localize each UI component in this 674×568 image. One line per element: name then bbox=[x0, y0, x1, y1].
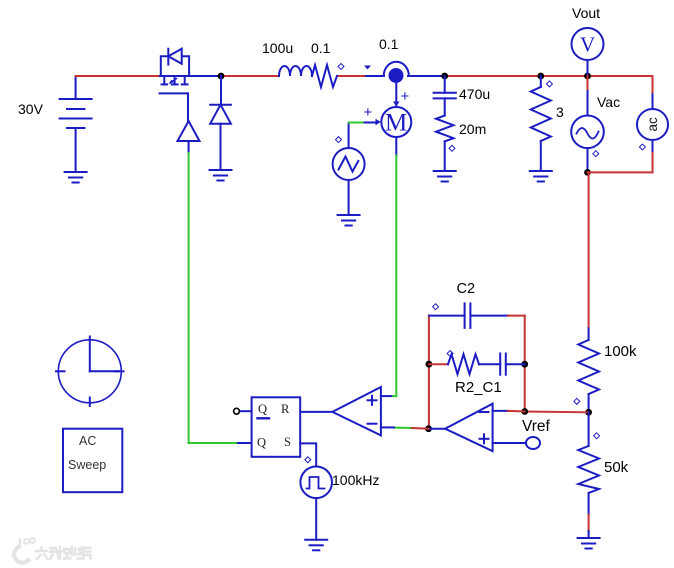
flip-flop U3 (SR latch) bbox=[252, 397, 301, 457]
wire (gating signal, green vertical) bbox=[188, 153, 190, 443]
svg-text:Q: Q bbox=[257, 436, 266, 450]
wire (driver input stub, blue) bbox=[188, 141, 190, 153]
comparator U1 bbox=[332, 387, 381, 435]
marker diamond (triangle source top) bbox=[336, 137, 342, 143]
wire (node E down to divider, red vertical) bbox=[588, 172, 590, 328]
node I (U2 minus node) bbox=[521, 408, 528, 415]
svg-text:+: + bbox=[364, 104, 373, 121]
node G bbox=[521, 361, 528, 368]
wire (triangle source to multiplier, green) bbox=[349, 122, 365, 124]
voltmeter VM1 bbox=[572, 28, 604, 60]
svg-text:S: S bbox=[284, 435, 291, 449]
svg-text:100u: 100u bbox=[262, 40, 293, 56]
multiplier U4 bbox=[381, 107, 411, 137]
wire (battery positive lead, blue) bbox=[75, 76, 77, 99]
AC sweep block bbox=[63, 429, 122, 493]
wire (U2 minus input stub blue then red) bbox=[493, 410, 508, 412]
label - (U2 inverting) bbox=[480, 411, 489, 413]
battery V1 30V bbox=[60, 99, 92, 172]
wire (Qbar output stub) bbox=[241, 410, 252, 412]
wire (flip-flop Q pin stub, blue) bbox=[238, 442, 252, 444]
ground (load R4) bbox=[530, 171, 552, 182]
diode D1 (freewheeling) bbox=[210, 105, 231, 124]
resistor R3 20m (ESR) bbox=[436, 116, 454, 142]
marker diamond (R4 top) bbox=[546, 81, 552, 87]
capacitor C2 bbox=[429, 303, 508, 328]
marker arrow (sensor direction) bbox=[364, 66, 371, 70]
node C bbox=[537, 73, 544, 80]
wire (R3 to ground) bbox=[444, 141, 446, 171]
wire (red into sensor, blue lead) bbox=[366, 75, 384, 77]
svg-text:R2_C1: R2_C1 bbox=[455, 379, 502, 396]
wire (U1 output to flip-flop R) bbox=[300, 411, 332, 413]
wire (feedback node to op-amp minus, red) bbox=[525, 411, 589, 414]
wire (MOSFET channel to node A, blue) bbox=[160, 75, 221, 77]
transistor Q1 body arrow bbox=[169, 79, 177, 84]
ground (battery) bbox=[65, 172, 87, 183]
wire (C2 right lead, red) bbox=[508, 315, 525, 317]
svg-text:20m: 20m bbox=[459, 121, 486, 137]
ground (diode D1) bbox=[210, 170, 232, 181]
svg-text:Vref: Vref bbox=[522, 418, 551, 435]
wire (node D down to Vac source, red then blue) bbox=[587, 76, 589, 91]
node B bbox=[441, 73, 448, 80]
transistor Q1 (MOSFET with body diode) bbox=[160, 49, 190, 94]
wire (right corner down to ac probe, red then blue) bbox=[652, 76, 654, 94]
svg-text:Q: Q bbox=[258, 402, 267, 416]
wire (triangle source top lead, blue) bbox=[348, 123, 350, 149]
svg-text:0.1: 0.1 bbox=[379, 36, 399, 52]
wire (gating signal, green horizontal into flip-flop Q) bbox=[189, 442, 238, 444]
marker arrow (multiplier top input) bbox=[393, 102, 400, 107]
wire (ac probe lower lead, blue then red) bbox=[652, 140, 654, 153]
ac probe P1 bbox=[637, 109, 668, 140]
marker diamond (R5 bottom) bbox=[574, 398, 580, 404]
resistor R1 bbox=[312, 65, 337, 87]
current sensor ISEN1 0.1 bbox=[384, 62, 409, 76]
wire (R6 to ground, red segment) bbox=[588, 515, 590, 531]
wire (U1 plus input stub, blue) bbox=[381, 395, 393, 397]
svg-text:M: M bbox=[385, 110, 407, 137]
wire (U2 output stub, blue) bbox=[429, 428, 446, 430]
svg-text:0.1: 0.1 bbox=[311, 40, 331, 56]
gate driver A1 (on-off controller triangle) bbox=[178, 121, 200, 141]
wire (comparator minus to node H: green then red) bbox=[394, 427, 412, 429]
svg-text:50k: 50k bbox=[604, 459, 629, 476]
port (Qbar open terminal) bbox=[234, 408, 240, 414]
node F bbox=[426, 361, 433, 368]
wire (U2 plus input stub to Vref port) bbox=[493, 442, 526, 444]
port Vref bbox=[526, 437, 540, 449]
svg-text:C2: C2 bbox=[457, 281, 476, 297]
source V2 (triangular carrier) bbox=[333, 148, 365, 215]
resistor R6 50k bbox=[578, 412, 599, 514]
marker diamond (ac probe bottom) bbox=[639, 144, 645, 150]
marker arrow (multiplier left input) bbox=[376, 119, 381, 126]
svg-text:100k: 100k bbox=[604, 343, 637, 360]
svg-text:ac: ac bbox=[645, 117, 660, 132]
svg-text:Sweep: Sweep bbox=[68, 458, 106, 472]
marker diamond (R3 bottom) bbox=[449, 145, 455, 151]
marker diamond (clock source top) bbox=[305, 457, 311, 463]
svg-text:470u: 470u bbox=[459, 86, 490, 102]
svg-text:V: V bbox=[580, 33, 595, 57]
wire (multiplier output down to comparator +, green) bbox=[395, 156, 397, 397]
wire (node B to node C to node D to right corner, red) bbox=[445, 75, 653, 77]
node H (U2 output node) bbox=[425, 425, 432, 432]
wire (feedback left rail, red) bbox=[428, 316, 430, 429]
wire (resistor R1 to sensor, red) bbox=[337, 75, 366, 77]
wire (node B down to capacitor C3) bbox=[444, 76, 446, 93]
wire (gate of Q1 down to driver) bbox=[187, 93, 189, 121]
svg-text:AC: AC bbox=[79, 434, 96, 448]
ground (source V2) bbox=[338, 215, 360, 226]
node E bbox=[584, 169, 591, 176]
label + (U2 non-inverting) bbox=[480, 434, 489, 443]
svg-text:3: 3 bbox=[556, 104, 564, 120]
svg-text:100kHz: 100kHz bbox=[332, 472, 379, 488]
wire (node F to R2, red stub) bbox=[429, 363, 448, 365]
node D bbox=[584, 73, 591, 80]
watermark logo bbox=[14, 538, 35, 563]
marker diamond (R1 right) bbox=[338, 64, 344, 70]
ground (output capacitor) bbox=[434, 171, 456, 182]
source V4 100kHz (square wave) bbox=[300, 467, 332, 540]
svg-text:+: + bbox=[401, 88, 410, 105]
wire (node A to inductor, red) bbox=[221, 75, 279, 77]
marker diamond (C2 left) bbox=[433, 304, 439, 310]
node A bbox=[218, 73, 225, 80]
wire (node D up to voltmeter) bbox=[587, 60, 589, 76]
wire (sensor to node B, blue) bbox=[408, 75, 445, 77]
marker diamond (R2 left) bbox=[447, 351, 453, 357]
wire (multiplier output stub, blue) bbox=[395, 137, 397, 156]
wire (multiplier left input stub, blue) bbox=[365, 122, 377, 124]
capacitor C3 470u bbox=[434, 93, 456, 116]
resistor R4 3 (load) bbox=[531, 76, 551, 171]
node J bbox=[585, 409, 592, 416]
wire (diode D1 to ground) bbox=[220, 124, 222, 170]
inductor L1 bbox=[279, 66, 312, 76]
op-amp U2 (error amplifier) bbox=[445, 404, 493, 452]
resistor R5 100k bbox=[578, 328, 599, 412]
wire (feedback right rail, red) bbox=[524, 316, 526, 412]
svg-text:R: R bbox=[281, 402, 290, 416]
wire (U1 minus input stub, blue) bbox=[381, 426, 394, 428]
wire (S input from clock source) bbox=[300, 443, 316, 466]
wire (top rail: battery to MOSFET, red) bbox=[76, 75, 160, 77]
marker diamond (Vac bottom) bbox=[593, 151, 599, 157]
resistor R2 bbox=[448, 354, 479, 374]
ground (divider) bbox=[578, 538, 600, 549]
marker diamond (R6 top) bbox=[594, 433, 600, 439]
wire (sensor dot down to multiplier, blue) bbox=[395, 80, 397, 107]
wire (U1 plus input, green) bbox=[393, 395, 396, 397]
source V3 Vac (sine perturbation) bbox=[571, 116, 604, 173]
label - (U1 inverting) bbox=[368, 423, 377, 425]
clock icon (simulation control) bbox=[56, 337, 124, 407]
wire (node A down to diode D1) bbox=[220, 76, 222, 105]
svg-text:Vac: Vac bbox=[597, 94, 620, 110]
capacitor C1 bbox=[479, 354, 525, 375]
svg-text:Vout: Vout bbox=[572, 5, 600, 21]
svg-text:30V: 30V bbox=[18, 101, 44, 117]
wire (node E to ac probe bottom, red) bbox=[588, 171, 653, 173]
ground (clock source) bbox=[305, 540, 327, 551]
label + (U1 non-inverting) bbox=[368, 396, 377, 405]
watermark text bbox=[36, 547, 91, 559]
